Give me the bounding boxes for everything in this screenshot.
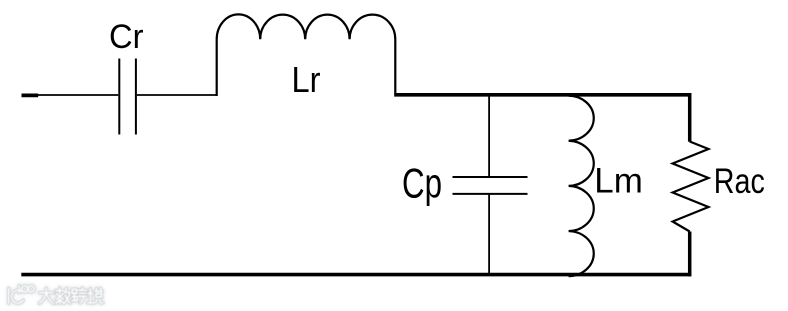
- svg-text:Lr: Lr: [292, 60, 321, 100]
- capacitor Cp: top lead: [488, 96, 490, 177]
- watermark: [9, 286, 103, 304]
- wire: bottom thick bus: [21, 273, 691, 277]
- wire: Cr to Lr: [137, 94, 217, 96]
- resistor Rac: zigzag body: [673, 142, 709, 232]
- inductor Lr: [217, 14, 396, 96]
- resistor Rac: bottom lead: [688, 232, 692, 277]
- svg-text:Cr: Cr: [109, 18, 144, 56]
- svg-text:Cp: Cp: [402, 159, 442, 206]
- svg-text:Lm: Lm: [594, 162, 643, 201]
- svg-text:Rac: Rac: [714, 162, 765, 201]
- wire: top-left horizontal to Cr: [38, 94, 118, 96]
- capacitor Cp: plates: [453, 177, 528, 194]
- resistor Rac: top lead: [688, 93, 692, 142]
- inductor Lm: [569, 96, 594, 277]
- capacitor Cr: [119, 59, 136, 135]
- wire: left input terminal stub: [22, 94, 39, 98]
- capacitor Cp: bottom lead: [488, 194, 490, 275]
- wire: top thick bus from Lr to right branch: [394, 93, 691, 97]
